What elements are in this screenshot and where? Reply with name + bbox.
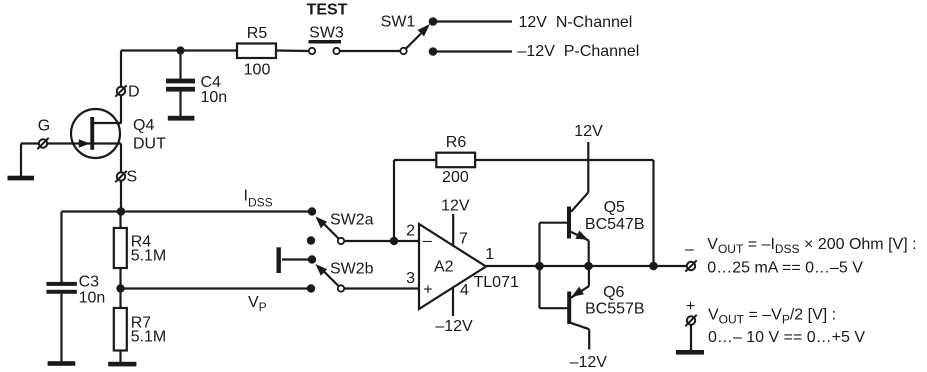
svg-text:SW2b: SW2b: [330, 261, 374, 278]
svg-text:BC557B: BC557B: [585, 301, 645, 318]
svg-text:S: S: [127, 169, 138, 186]
svg-text:0…25 mA == 0…–5 V: 0…25 mA == 0…–5 V: [707, 259, 863, 276]
svg-text:BC547B: BC547B: [585, 216, 645, 233]
svg-text:DUT: DUT: [133, 136, 166, 153]
svg-text:12V: 12V: [441, 198, 470, 215]
svg-text:2: 2: [406, 223, 415, 240]
svg-text:3: 3: [406, 270, 415, 287]
svg-text:10n: 10n: [79, 290, 106, 307]
svg-text:Q6: Q6: [603, 284, 624, 301]
svg-text:1: 1: [485, 246, 494, 263]
svg-text:0…– 10 V == 0…+5 V: 0…– 10 V == 0…+5 V: [708, 329, 865, 346]
svg-text:200: 200: [442, 169, 469, 186]
svg-text:12V: 12V: [574, 123, 603, 140]
svg-text:SW1: SW1: [381, 14, 416, 31]
svg-text:R5: R5: [247, 25, 268, 42]
svg-text:5.1M: 5.1M: [131, 329, 167, 346]
svg-text:SW3: SW3: [309, 25, 344, 42]
svg-text:10n: 10n: [201, 89, 228, 106]
svg-text:TL071: TL071: [474, 274, 519, 291]
svg-text:R6: R6: [446, 134, 467, 151]
svg-text:5.1M: 5.1M: [131, 248, 167, 265]
svg-text:4: 4: [460, 282, 469, 299]
svg-text:–: –: [685, 241, 694, 258]
svg-text:C3: C3: [79, 274, 100, 291]
svg-text:–12V: –12V: [435, 318, 473, 335]
svg-text:TEST: TEST: [307, 2, 348, 19]
svg-text:100: 100: [244, 62, 271, 79]
svg-text:A2: A2: [434, 259, 454, 276]
svg-text:–: –: [423, 233, 432, 250]
svg-text:–12V P-Channel: –12V P-Channel: [518, 43, 640, 60]
svg-text:+: +: [423, 282, 432, 299]
svg-text:Q4: Q4: [133, 117, 154, 134]
svg-text:Q5: Q5: [604, 199, 625, 216]
svg-text:12V N-Channel: 12V N-Channel: [519, 14, 633, 31]
svg-text:SW2a: SW2a: [330, 212, 374, 229]
svg-text:+: +: [686, 298, 695, 315]
svg-text:7: 7: [459, 231, 468, 248]
svg-text:G: G: [38, 118, 50, 135]
svg-text:–12V: –12V: [570, 354, 608, 371]
svg-text:D: D: [128, 84, 140, 101]
